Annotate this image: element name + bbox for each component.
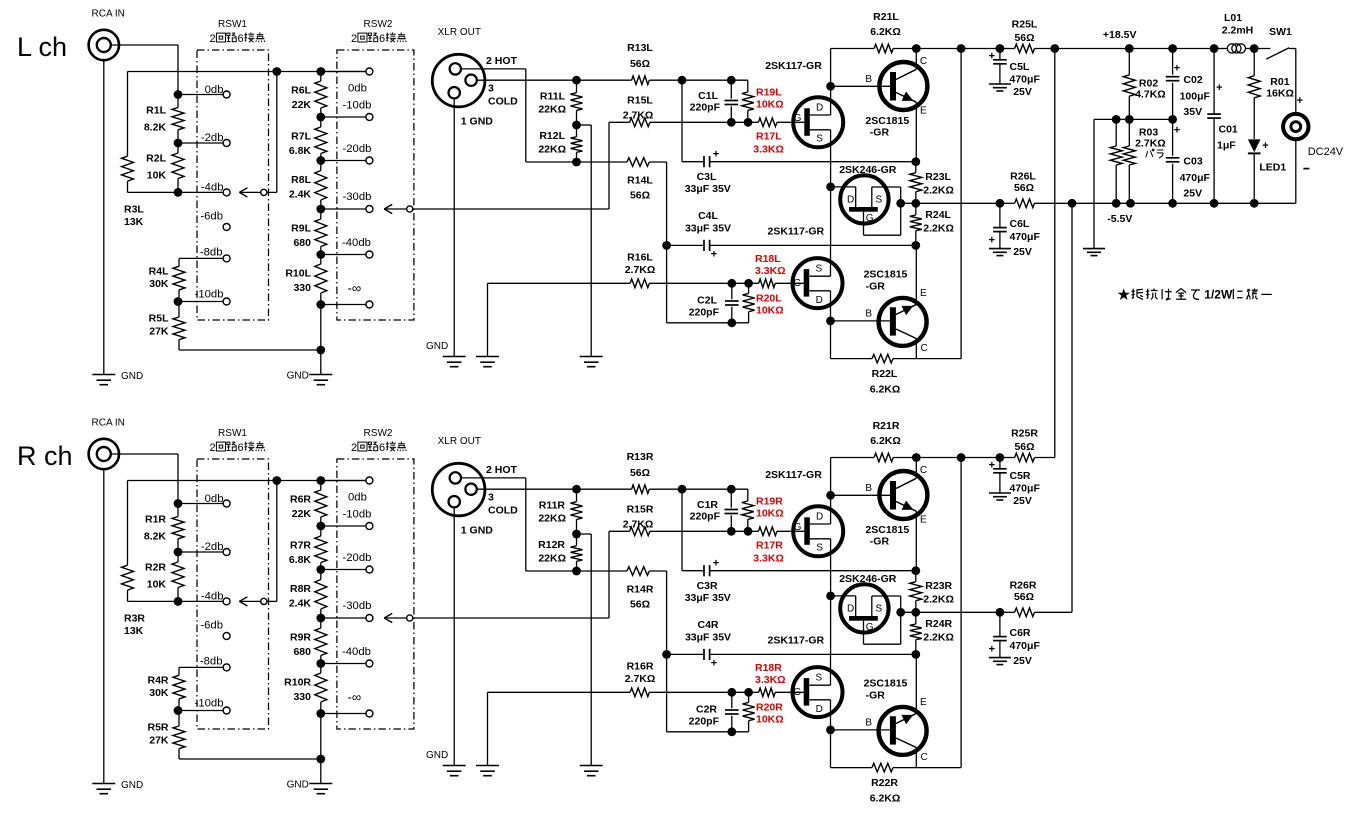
wire R16 left to ground: [487, 692, 489, 765]
svg-text:2.2KΩ: 2.2KΩ: [923, 632, 954, 644]
svg-text:2.2KΩ: 2.2KΩ: [923, 185, 954, 197]
svg-text:GND: GND: [121, 371, 143, 382]
wire R11/R12 mid to ground: [577, 124, 592, 126]
node Q3 collector: [912, 44, 921, 53]
svg-text:R16L: R16L: [627, 252, 653, 264]
svg-text:-30db: -30db: [343, 191, 372, 203]
resistor R20L 10KΩ (red): [744, 279, 753, 288]
svg-text:56Ω: 56Ω: [1014, 182, 1034, 194]
transistor Q3L 2SC1815-GR (upper BJT): [879, 62, 927, 110]
svg-text:-20db: -20db: [343, 143, 372, 155]
svg-text:6: 6: [379, 442, 385, 454]
svg-text:R11R: R11R: [539, 499, 566, 511]
resistor R9L 680: [320, 209, 322, 219]
node JFET1 drain / Q3 base: [826, 491, 835, 500]
svg-text:2SK117-GR: 2SK117-GR: [768, 635, 825, 647]
capacitor C2R 220pF: [727, 688, 736, 697]
svg-text:2.2KΩ: 2.2KΩ: [923, 594, 954, 606]
svg-text:GND: GND: [287, 371, 309, 382]
svg-text:RSW2: RSW2: [364, 19, 393, 30]
node JFET2 drain / Q4 base: [826, 726, 835, 735]
XLR OUT connector (R ch): [432, 463, 485, 516]
svg-text:+: +: [1174, 63, 1180, 75]
resistor R3L 13K: [127, 72, 129, 157]
RSW1 wiper arm (-4db selected): [239, 188, 247, 193]
transistor Q4R 2SC1815-GR (lower BJT): [879, 707, 927, 755]
svg-text:S: S: [875, 195, 882, 206]
resistor R24R 2.2KΩ: [915, 612, 917, 624]
svg-text:2SK246-GR: 2SK246-GR: [839, 573, 897, 585]
svg-text:R15R: R15R: [627, 504, 654, 516]
svg-text:R3L: R3L: [124, 204, 144, 216]
resistor R11L 22KΩ: [572, 76, 581, 85]
svg-text:25V: 25V: [1013, 86, 1032, 98]
svg-text:R1R: R1R: [145, 514, 166, 526]
svg-text:2.4K: 2.4K: [289, 598, 312, 610]
resistor R19L 10KΩ (red): [747, 80, 749, 92]
svg-text:27K: 27K: [149, 326, 169, 338]
svg-text:R24L: R24L: [925, 209, 951, 221]
svg-text:R15L: R15L: [627, 95, 653, 107]
resistor R17R 3.3KΩ (red): [758, 527, 777, 536]
svg-text:56Ω: 56Ω: [630, 190, 650, 202]
resistor R6R 22K: [320, 481, 322, 491]
resistor R16R 2.7KΩ: [488, 691, 631, 693]
svg-text:R25L: R25L: [1012, 19, 1038, 31]
svg-text:-8db: -8db: [200, 656, 223, 668]
svg-text:R21R: R21R: [873, 420, 900, 432]
resistor R7R 6.8K: [320, 526, 322, 536]
svg-text:DC24V: DC24V: [1308, 146, 1344, 158]
svg-text:R8R: R8R: [290, 583, 311, 595]
svg-text:XLR OUT: XLR OUT: [438, 27, 481, 38]
note: all resistors 1/2W: [1118, 288, 1130, 300]
resistor R18R 3.3KΩ (red): [759, 688, 776, 697]
svg-text:L ch: L ch: [17, 32, 67, 62]
ground (R11/R12 mid): [580, 356, 603, 358]
ground (XLR): [443, 765, 466, 767]
node Q3 collector: [912, 453, 921, 462]
svg-text:0db: 0db: [205, 84, 224, 96]
svg-text:R10R: R10R: [284, 677, 311, 689]
ground (C6): [989, 657, 1011, 659]
svg-text:3.3KΩ: 3.3KΩ: [753, 143, 784, 155]
svg-text:2SK117-GR: 2SK117-GR: [768, 226, 825, 238]
svg-text:R26R: R26R: [1010, 580, 1037, 592]
resistor R4L 30K: [178, 258, 180, 266]
svg-text:220pF: 220pF: [689, 715, 720, 727]
resistor R13R 56Ω: [577, 488, 632, 490]
RCA IN connector J2 (R ch): [89, 439, 119, 469]
ground (C6): [989, 248, 1011, 250]
svg-text:2.7KΩ: 2.7KΩ: [625, 673, 656, 685]
svg-text:13K: 13K: [124, 216, 144, 228]
ground (mid rail): [1083, 248, 1105, 250]
svg-text:+: +: [711, 249, 717, 261]
svg-text:2 HOT: 2 HOT: [486, 464, 518, 476]
node JFET2 drain / Q4 base: [826, 317, 835, 326]
wire -5.5V feed to R ch: [1071, 203, 1073, 612]
svg-text:30K: 30K: [149, 278, 169, 290]
svg-text:C1R: C1R: [697, 499, 718, 511]
svg-text:R6R: R6R: [290, 494, 311, 506]
svg-text:0db: 0db: [348, 82, 367, 94]
wire XLR pin3 COLD: [477, 488, 577, 490]
svg-text:C6L: C6L: [1010, 218, 1030, 230]
ground (attenuator): [309, 783, 332, 785]
svg-text:220pF: 220pF: [690, 510, 721, 522]
capacitor C03 470uF: [1172, 119, 1174, 155]
resistor R25R 56Ω: [1015, 453, 1035, 462]
svg-text:8.2K: 8.2K: [144, 531, 167, 543]
svg-text:6.2KΩ: 6.2KΩ: [870, 793, 901, 805]
svg-text:6.2KΩ: 6.2KΩ: [870, 435, 901, 447]
svg-text:R10L: R10L: [285, 268, 311, 280]
svg-text:C01: C01: [1219, 124, 1238, 136]
svg-text:R12L: R12L: [539, 130, 565, 142]
svg-text:R21L: R21L: [873, 11, 899, 23]
DC24V jack: [1295, 49, 1297, 114]
svg-text:1μF: 1μF: [1217, 140, 1236, 152]
wire RCA to attenuator: [111, 453, 178, 455]
svg-text:R14R: R14R: [627, 584, 654, 596]
svg-text:-10db: -10db: [343, 508, 372, 520]
svg-text:R13R: R13R: [627, 451, 654, 463]
svg-text:0db: 0db: [348, 491, 367, 503]
svg-text:R8L: R8L: [291, 174, 311, 186]
svg-text:2.7KΩ: 2.7KΩ: [623, 110, 654, 122]
svg-text:R6L: R6L: [291, 85, 311, 97]
resistor R11R 22KΩ: [572, 485, 581, 494]
resistor R5R 27K: [178, 711, 180, 727]
svg-text:25V: 25V: [1183, 188, 1202, 200]
svg-text:-GR: -GR: [870, 536, 890, 548]
svg-text:680: 680: [293, 646, 311, 658]
wire XLR pin1 to ground: [453, 507, 455, 765]
svg-text:1 GND: 1 GND: [461, 525, 494, 537]
svg-text:G: G: [794, 113, 802, 124]
svg-text:6.8K: 6.8K: [289, 145, 312, 157]
svg-text:E: E: [920, 697, 927, 708]
svg-text:33μF 35V: 33μF 35V: [685, 632, 731, 644]
RSW1 contact -4db: [178, 191, 223, 193]
svg-text:RSW1: RSW1: [218, 19, 247, 30]
svg-text:R19L: R19L: [756, 87, 782, 99]
svg-text:3.3KΩ: 3.3KΩ: [755, 265, 786, 277]
RSW1 contact -10db: [178, 301, 223, 303]
svg-text:R5R: R5R: [147, 722, 168, 734]
RSW2 contact -40db: [321, 663, 366, 665]
svg-text:C4L: C4L: [698, 210, 718, 222]
svg-text:C: C: [920, 56, 927, 67]
svg-text:GND: GND: [426, 750, 448, 761]
resistor R03 2.7KΩ (parallel pair): [1115, 119, 1117, 146]
svg-text:C6R: C6R: [1010, 627, 1031, 639]
svg-text:+: +: [1174, 125, 1180, 137]
svg-text:680: 680: [293, 237, 311, 249]
rotary switch RSW1 outline: [197, 50, 269, 320]
RSW1 wiper arm (-4db selected): [239, 597, 247, 602]
svg-text:6.2KΩ: 6.2KΩ: [870, 26, 901, 38]
svg-text:2SC1815: 2SC1815: [864, 269, 908, 281]
wire R14 down: [666, 162, 668, 323]
svg-text:+: +: [989, 644, 995, 656]
resistor R25L 56Ω: [1015, 44, 1035, 53]
node A junction: [678, 76, 687, 85]
svg-text:2: 2: [210, 33, 216, 45]
node JFET1 source column: [826, 183, 835, 192]
svg-text:R13L: R13L: [627, 42, 653, 54]
resistor R21L 6.2KΩ: [830, 49, 832, 87]
wire XLR pin2 HOT: [461, 477, 526, 479]
svg-text:3.3KΩ: 3.3KΩ: [755, 674, 786, 686]
svg-text:56Ω: 56Ω: [630, 467, 650, 479]
svg-text:-5.5V: -5.5V: [1107, 213, 1132, 225]
svg-text:B: B: [865, 717, 872, 728]
svg-text:R12R: R12R: [538, 539, 565, 551]
svg-text:C: C: [921, 752, 928, 763]
RSW2 contact 0db: [321, 71, 366, 73]
wire -5.5V rail: [1000, 202, 1015, 204]
svg-text:33μF 35V: 33μF 35V: [685, 592, 731, 604]
svg-text:10K: 10K: [147, 579, 167, 591]
svg-text:2: 2: [351, 442, 357, 454]
inductor L01 2.2mH: [1214, 48, 1227, 50]
svg-text:-40db: -40db: [342, 237, 371, 249]
svg-text:2SK246-GR: 2SK246-GR: [839, 164, 897, 176]
svg-text:E: E: [920, 288, 927, 299]
wire +rail: [916, 48, 1000, 50]
node A junction: [678, 485, 687, 494]
wire +18.5V feed to R ch: [1054, 49, 1056, 458]
svg-text:470μF: 470μF: [1010, 231, 1041, 243]
svg-text:6.8K: 6.8K: [289, 554, 312, 566]
svg-text:+18.5V: +18.5V: [1103, 29, 1137, 41]
svg-text:D: D: [816, 512, 823, 523]
svg-text:-GR: -GR: [870, 127, 890, 139]
svg-text:+: +: [989, 51, 995, 63]
svg-text:G: G: [866, 622, 874, 633]
svg-text:6: 6: [238, 33, 244, 45]
RSW1 contact -4db: [178, 600, 223, 602]
svg-text:22KΩ: 22KΩ: [538, 552, 566, 564]
wire wiper to R15 input: [608, 531, 610, 618]
svg-text:2.4K: 2.4K: [289, 189, 312, 201]
resistor R23L 2.2KΩ: [911, 157, 920, 166]
wire RCA ground: [103, 469, 105, 783]
resistor R22L 6.2KΩ: [830, 321, 832, 359]
svg-text:S: S: [815, 673, 822, 684]
svg-text:330: 330: [293, 691, 311, 703]
wire input top rail: [128, 71, 366, 73]
ground (RCA): [92, 374, 115, 376]
capacitor C3R 33uF: [681, 489, 683, 571]
svg-text:-10db: -10db: [195, 698, 224, 710]
RSW2 wiper arm (-30db selected): [384, 613, 392, 618]
svg-text:2SC1815: 2SC1815: [865, 524, 909, 536]
resistor R12L 22KΩ: [572, 121, 581, 130]
wire RCA to attenuator: [111, 44, 178, 46]
wire R ch +rail to feed: [1000, 457, 1015, 459]
transistor Q1R 2SK117-GR (upper JFET): [793, 506, 843, 556]
svg-text:XLR OUT: XLR OUT: [438, 436, 481, 447]
capacitor C1R 220pF: [727, 485, 736, 494]
RSW2 contact -20db: [321, 569, 366, 571]
RSW2 wiper arm (-30db selected): [384, 204, 392, 209]
svg-text:D: D: [847, 604, 854, 615]
resistor R02 4.7KΩ: [1128, 49, 1130, 75]
resistor R10R 330: [320, 664, 322, 674]
RSW2 contact -∞: [321, 304, 366, 306]
svg-text:2SC1815: 2SC1815: [865, 115, 909, 127]
svg-text:-8db: -8db: [200, 247, 223, 259]
svg-text:G: G: [794, 522, 802, 533]
wire R10 bottom to ground: [320, 714, 322, 784]
wire C2/R20 bottom: [667, 322, 749, 324]
svg-text:+: +: [1216, 82, 1222, 94]
RSW1 contact -8db: [179, 666, 223, 668]
svg-text:C: C: [920, 465, 927, 476]
wire R5 bottom to gnd node: [179, 349, 321, 351]
svg-text:R1L: R1L: [146, 105, 166, 117]
svg-text:D: D: [816, 295, 823, 306]
wire R11/R12 mid to ground: [577, 533, 592, 535]
node JFET1 drain / Q3 base: [826, 82, 835, 91]
svg-text:-∞: -∞: [348, 690, 362, 705]
wire XLR pin3 COLD: [477, 79, 577, 81]
svg-text:R26L: R26L: [1010, 171, 1036, 183]
ground (C5): [989, 83, 1011, 85]
svg-text:33μF 35V: 33μF 35V: [685, 223, 731, 235]
rotary switch RSW1 outline: [197, 459, 269, 729]
svg-text:R2R: R2R: [145, 562, 166, 574]
svg-text:S: S: [816, 543, 823, 554]
svg-text:R22L: R22L: [872, 368, 898, 380]
svg-text:470μF: 470μF: [1180, 172, 1211, 184]
svg-text:3: 3: [488, 83, 494, 95]
resistor R2L 10K: [177, 143, 179, 153]
RSW1 contact -2db: [178, 551, 223, 553]
svg-text:10KΩ: 10KΩ: [756, 508, 784, 520]
svg-text:R25R: R25R: [1011, 428, 1038, 440]
resistor R3R 13K: [127, 481, 129, 566]
RSW1 contact -10db: [178, 710, 223, 712]
resistor R8L 2.4K: [320, 161, 322, 171]
svg-text:C2R: C2R: [696, 704, 717, 716]
resistor R12R 22KΩ: [572, 530, 581, 539]
capacitor C4L 33uF: [667, 244, 704, 246]
svg-text:-6db: -6db: [200, 210, 223, 222]
ground (attenuator): [309, 374, 332, 376]
wire Q4 collector rail up: [960, 49, 962, 359]
RSW2 contact -30db: [321, 617, 366, 619]
resistor R17L 3.3KΩ (red): [758, 118, 777, 127]
svg-text:+: +: [989, 460, 995, 472]
svg-text:R5L: R5L: [149, 313, 169, 325]
resistor R6L 22K: [320, 72, 322, 82]
svg-text:22K: 22K: [292, 99, 312, 111]
svg-text:2.2KΩ: 2.2KΩ: [923, 223, 954, 235]
resistor R23R 2.2KΩ: [911, 566, 920, 575]
svg-text:C1L: C1L: [698, 90, 718, 102]
svg-text:-10db: -10db: [343, 99, 372, 111]
svg-text:56Ω: 56Ω: [630, 58, 650, 70]
svg-text:+: +: [1297, 95, 1303, 107]
RSW1 contact -2db: [178, 142, 223, 144]
svg-text:10KΩ: 10KΩ: [756, 99, 784, 111]
svg-text:R17R: R17R: [756, 540, 783, 552]
svg-text:R9L: R9L: [291, 223, 311, 235]
transistor Q5R 2SK246-GR (cascode JFET): [840, 584, 888, 632]
svg-text:R01: R01: [1270, 76, 1289, 88]
svg-text:COLD: COLD: [488, 505, 518, 517]
svg-text:10KΩ: 10KΩ: [756, 714, 784, 726]
svg-text:10K: 10K: [147, 170, 167, 182]
wire input top rail: [128, 480, 366, 482]
wire C2/R20 bottom: [667, 731, 749, 733]
svg-text:-20db: -20db: [343, 552, 372, 564]
capacitor C4R 33uF: [667, 653, 704, 655]
resistor R13L 56Ω: [577, 79, 632, 81]
svg-text:GND: GND: [287, 780, 309, 791]
svg-text:R11L: R11L: [540, 90, 566, 102]
RSW2 contact 0db: [321, 480, 366, 482]
svg-text:R16R: R16R: [627, 661, 654, 673]
svg-text:RSW2: RSW2: [364, 428, 393, 439]
svg-text:B: B: [865, 483, 872, 494]
svg-text:33μF 35V: 33μF 35V: [685, 183, 731, 195]
svg-text:+: +: [713, 558, 719, 570]
svg-text:R18R: R18R: [755, 662, 782, 674]
svg-text:R22R: R22R: [871, 777, 898, 789]
capacitor C6L 470uF: [999, 203, 1001, 227]
capacitor C3L 33uF: [681, 80, 683, 162]
resistor R15R 2.7KΩ: [609, 530, 630, 532]
svg-text:SW1: SW1: [1269, 26, 1292, 38]
svg-text:2SK117-GR: 2SK117-GR: [765, 60, 822, 72]
wire output node: [901, 611, 1000, 613]
svg-text:2.7KΩ: 2.7KΩ: [623, 519, 654, 531]
resistor R10L 330: [320, 255, 322, 265]
XLR OUT connector (L ch): [432, 54, 485, 107]
svg-text:30K: 30K: [149, 687, 169, 699]
svg-text:B: B: [865, 308, 872, 319]
wire R ch output to feed: [1000, 611, 1015, 613]
wire mid rail: [1094, 118, 1173, 120]
svg-text:R17L: R17L: [756, 131, 782, 143]
svg-text:-∞: -∞: [348, 281, 362, 296]
svg-text:56Ω: 56Ω: [1014, 591, 1034, 603]
rotary switch RSW2 outline: [337, 459, 414, 729]
capacitor C1L 220pF: [727, 76, 736, 85]
svg-text:2: 2: [210, 442, 216, 454]
resistor R19R 10KΩ (red): [747, 489, 749, 501]
svg-text:R ch: R ch: [17, 441, 73, 471]
resistor R1L 8.2K: [177, 95, 179, 108]
svg-text:3.3KΩ: 3.3KΩ: [753, 552, 784, 564]
RSW1 contact -6db: [223, 224, 230, 231]
svg-text:22KΩ: 22KΩ: [538, 104, 566, 116]
svg-text:E: E: [920, 515, 927, 526]
capacitor C5L 470uF: [999, 49, 1001, 60]
RSW2 contact -40db: [321, 254, 366, 256]
svg-text:R23L: R23L: [925, 171, 951, 183]
svg-text:R4R: R4R: [147, 675, 168, 687]
svg-text:GND: GND: [121, 780, 143, 791]
RCA IN connector J1 (L ch): [89, 30, 119, 60]
resistor R01 16KΩ: [1253, 49, 1255, 76]
capacitor C01 1uF: [1213, 49, 1215, 115]
